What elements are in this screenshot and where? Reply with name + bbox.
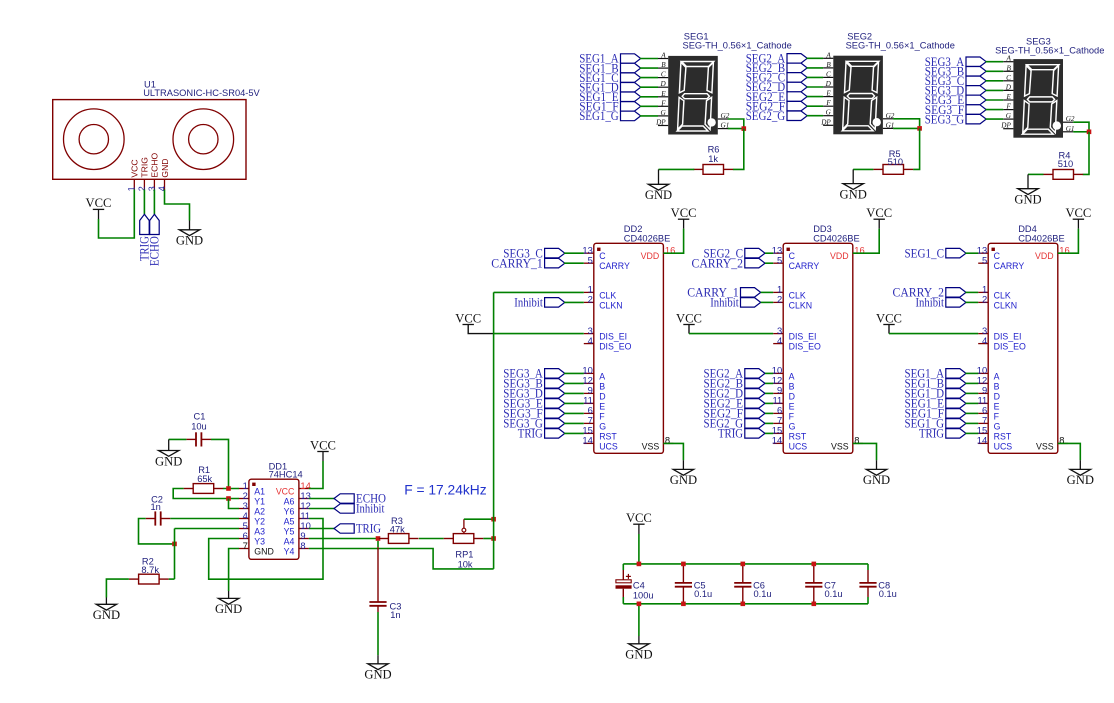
- net flag SEG1_D at DD4: [946, 389, 966, 399]
- svg-text:A: A: [789, 371, 795, 381]
- wire node F to C3: [377, 541, 379, 547]
- svg-text:ECHO: ECHO: [150, 152, 160, 177]
- svg-text:SEG3_G: SEG3_G: [925, 112, 965, 126]
- ground at rail: [629, 636, 649, 650]
- svg-text:Y5: Y5: [284, 527, 295, 537]
- svg-text:A4: A4: [284, 537, 295, 547]
- wire R5 to GND: [853, 168, 873, 170]
- wire SEG1 G2: [728, 119, 744, 129]
- net flag SEG1_A: [621, 54, 641, 63]
- svg-text:DIS_EO: DIS_EO: [599, 342, 631, 352]
- svg-text:VCC: VCC: [671, 206, 697, 220]
- net flag SEG3_F at DD2: [545, 409, 565, 419]
- power flag VCC at U1: [93, 209, 104, 219]
- net flag SEG2_A at DD3: [745, 369, 765, 379]
- wire SEG1_B to SEG1: [640, 67, 658, 69]
- svg-text:14: 14: [977, 435, 987, 446]
- svg-text:4: 4: [982, 335, 987, 346]
- net flag SEG1_C at DD4: [946, 248, 966, 258]
- svg-text:510: 510: [888, 157, 904, 167]
- svg-text:DD2: DD2: [624, 224, 643, 234]
- svg-text:DIS_EI: DIS_EI: [789, 332, 817, 342]
- svg-text:Y1: Y1: [254, 497, 265, 507]
- net flag SEG1_E at DD4: [946, 399, 966, 409]
- svg-text:VSS: VSS: [831, 441, 849, 451]
- net flag TRIG: [140, 214, 150, 234]
- svg-text:D: D: [1005, 83, 1012, 91]
- svg-text:C: C: [826, 70, 831, 78]
- svg-text:GND: GND: [670, 473, 697, 487]
- svg-text:A: A: [1006, 55, 1012, 63]
- svg-text:B: B: [826, 61, 831, 69]
- svg-text:E: E: [994, 401, 1000, 411]
- wire SEG1_D to DD4: [965, 392, 978, 394]
- svg-text:GND: GND: [155, 454, 182, 468]
- svg-text:1n: 1n: [390, 610, 400, 620]
- wire SEG2 G2: [893, 119, 920, 129]
- svg-text:5: 5: [588, 255, 593, 266]
- net flag SEG3_D: [966, 86, 986, 96]
- svg-text:CD4026BE: CD4026BE: [624, 234, 671, 244]
- svg-text:C: C: [994, 251, 1001, 261]
- wire SEG2_A to DD3: [765, 372, 773, 374]
- capacitor C1 10u: [186, 432, 211, 446]
- wire C1 to DD1 pin1: [211, 439, 229, 488]
- net flag SEG2_E: [787, 92, 807, 102]
- net flag SEG3_D at DD2: [545, 389, 565, 399]
- wire SEG3_A to DD2: [564, 372, 584, 374]
- wire R2 to node A3: [169, 578, 175, 580]
- svg-text:1: 1: [127, 186, 137, 191]
- capacitor C8 0.1u: [859, 570, 876, 597]
- wire SEG1_G to DD4: [965, 422, 978, 424]
- wire R1 to DD1 pin2: [173, 489, 239, 499]
- net flag CARRY_2 at DD4: [946, 288, 966, 298]
- wire rail right top corner: [867, 564, 869, 570]
- capacitor C4 100u polarized: [616, 570, 632, 597]
- svg-text:DD3: DD3: [813, 224, 832, 234]
- power flag VCC at DD2 VDD: [678, 219, 689, 228]
- ground at R4: [1018, 174, 1038, 194]
- svg-text:A3: A3: [254, 527, 265, 537]
- wire rail left top corner: [622, 564, 624, 570]
- svg-text:G: G: [599, 421, 606, 431]
- power flag VCC at DD4 VDD: [1073, 219, 1084, 228]
- wire DD1 pin12 to Inhibit: [309, 508, 334, 510]
- svg-text:F: F: [789, 411, 795, 421]
- junction C6 bottom: [741, 602, 746, 607]
- 7-segment display SEG2 SEG-TH_0.56x1_Cathode: [820, 51, 895, 134]
- ultrasonic sensor U1 ULTRASONIC-HC-SR04-5V: [53, 100, 246, 192]
- svg-text:VCC: VCC: [455, 311, 481, 325]
- wire SEG1_E to SEG1: [640, 96, 658, 98]
- wire TRIG to DD2: [564, 432, 584, 434]
- svg-text:VCC: VCC: [276, 487, 295, 497]
- svg-text:CLK: CLK: [599, 290, 616, 300]
- svg-text:G1: G1: [886, 121, 895, 129]
- wire DD2 VSS to GND: [663, 443, 683, 460]
- net flag SEG3_B at DD2: [545, 379, 565, 389]
- svg-text:RST: RST: [994, 431, 1012, 441]
- svg-text:8.7k: 8.7k: [141, 565, 159, 575]
- net flag SEG3_B: [966, 67, 986, 77]
- svg-text:TRIG: TRIG: [718, 427, 743, 441]
- wire U1 pin4 to GND: [165, 190, 190, 221]
- power flag VCC at rail: [633, 524, 644, 534]
- svg-text:TRIG: TRIG: [140, 157, 150, 178]
- svg-text:10u: 10u: [191, 421, 207, 431]
- wire SEG2_D to DD3: [765, 392, 773, 394]
- wire VCC rail top: [623, 563, 868, 565]
- wire DD1 pin8 to trunk: [309, 549, 494, 569]
- ground at U1: [179, 221, 199, 236]
- 7-segment display SEG3 SEG-TH_0.56x1_Cathode: [1000, 55, 1075, 138]
- wire U1 pin2 to TRIG flag: [143, 190, 145, 215]
- wire CARRY_1 to DD2: [564, 262, 584, 264]
- svg-text:D: D: [599, 391, 605, 401]
- svg-text:B: B: [994, 381, 1000, 391]
- svg-text:D: D: [789, 391, 795, 401]
- junction: [172, 542, 177, 547]
- svg-text:R6: R6: [708, 144, 720, 154]
- wire C2 to DD1 pin4: [170, 518, 239, 520]
- wire oscillator F to DD2 CLK: [494, 291, 584, 293]
- svg-text:C: C: [789, 251, 796, 261]
- svg-text:65k: 65k: [197, 474, 212, 484]
- svg-text:1n: 1n: [151, 502, 161, 512]
- svg-text:G: G: [826, 109, 832, 117]
- svg-text:A: A: [825, 51, 831, 59]
- svg-text:TRIG: TRIG: [919, 427, 944, 441]
- svg-text:GND: GND: [840, 187, 867, 201]
- wire SEG3_D to SEG3: [986, 89, 1004, 91]
- svg-text:2: 2: [777, 294, 782, 305]
- svg-text:G: G: [789, 421, 796, 431]
- net flag SEG2_B at DD3: [745, 379, 765, 389]
- svg-text:DP: DP: [820, 118, 831, 126]
- svg-text:CLKN: CLKN: [994, 300, 1017, 310]
- svg-text:VCC: VCC: [130, 159, 140, 177]
- ground at R5: [843, 169, 863, 189]
- svg-text:5: 5: [982, 255, 987, 266]
- wire SEG3 common to R4: [1083, 132, 1089, 175]
- wire rail right bottom corner: [867, 597, 869, 604]
- wire SEG1_C to DD4: [965, 252, 978, 254]
- net flag SEG3_A: [966, 57, 986, 67]
- svg-text:G: G: [1006, 112, 1012, 120]
- svg-text:B: B: [661, 61, 666, 69]
- net flag SEG3_C at DD2: [545, 248, 565, 258]
- ground at C3: [368, 655, 388, 670]
- junction: [637, 602, 642, 607]
- wire SEG3 G2: [1073, 122, 1089, 132]
- wire SEG3_F to DD2: [564, 412, 584, 414]
- svg-text:GND: GND: [215, 602, 242, 616]
- net flag SEG1_B at DD4: [946, 379, 966, 389]
- svg-text:F: F: [825, 99, 831, 107]
- net flag TRIG at DD2: [545, 429, 565, 439]
- svg-text:CLK: CLK: [789, 290, 806, 300]
- svg-text:F = 17.24kHz: F = 17.24kHz: [404, 482, 487, 497]
- net flag SEG3_G: [966, 114, 986, 124]
- wire C3 to GND: [377, 612, 379, 655]
- wire SEG2_B to DD3: [765, 382, 773, 384]
- net flag SEG2_E at DD3: [745, 399, 765, 409]
- net flag Inhibit at DD4: [946, 298, 966, 308]
- wire VCC to DD3 DIS_EI: [689, 333, 773, 335]
- junction: [917, 126, 922, 131]
- net flag SEG1_F: [621, 102, 641, 112]
- wire C1 to GND: [169, 438, 187, 440]
- wire CARRY_1 to DD3: [761, 291, 774, 293]
- svg-text:DIS_EI: DIS_EI: [994, 332, 1022, 342]
- svg-text:E: E: [825, 90, 831, 98]
- svg-text:G: G: [994, 421, 1001, 431]
- power flag VCC at DD3 VDD: [874, 219, 885, 228]
- wire VCC tap: [638, 534, 640, 564]
- wire VCC to DD2 DIS_EI: [494, 333, 584, 335]
- wire SEG3 G1: [1073, 131, 1089, 133]
- wire U1 pin3 to ECHO flag: [153, 190, 155, 215]
- wire SEG2_E to DD3: [765, 402, 773, 404]
- IC DD4 CD4026BE: [977, 243, 1070, 453]
- svg-text:2: 2: [982, 294, 987, 305]
- IC DD2 CD4026BE: [582, 243, 675, 453]
- svg-text:GND: GND: [254, 547, 274, 557]
- wire DD2 VDD to VCC: [663, 229, 683, 254]
- svg-text:A: A: [599, 371, 605, 381]
- net flag SEG3_G at DD2: [545, 419, 565, 429]
- net flag Inhibit at DD3: [741, 298, 761, 308]
- svg-text:A2: A2: [254, 507, 265, 517]
- net flag SEG2_G: [787, 111, 807, 121]
- wire SEG3_E to DD2: [564, 402, 584, 404]
- wire SEG3_A to SEG3: [986, 61, 1004, 63]
- wire RP1 wiper to trunk: [464, 518, 494, 520]
- svg-text:DIS_EO: DIS_EO: [789, 342, 821, 352]
- svg-text:A5: A5: [284, 517, 295, 527]
- wire SEG3_G to SEG3: [986, 118, 1004, 120]
- net flag SEG2_B: [787, 63, 807, 73]
- svg-text:5: 5: [777, 255, 782, 266]
- svg-text:TRIG: TRIG: [518, 427, 543, 441]
- svg-text:74HC14: 74HC14: [269, 470, 303, 480]
- svg-text:A: A: [994, 371, 1000, 381]
- wire DD1 Y3 to A5: [209, 519, 323, 580]
- svg-text:E: E: [660, 90, 666, 98]
- svg-text:CLKN: CLKN: [789, 300, 812, 310]
- wire SEG2_C to SEG2: [807, 76, 824, 78]
- wire U1 pin1 to VCC: [99, 190, 135, 239]
- resistor R1 65k: [184, 484, 224, 494]
- wire DD1 pin14 to VCC: [309, 461, 323, 489]
- wire DD4 VDD to VCC: [1058, 229, 1079, 254]
- wire SEG3_B to SEG3: [986, 70, 1004, 72]
- svg-text:SEG-TH_0.56×1_Cathode: SEG-TH_0.56×1_Cathode: [683, 41, 792, 51]
- wire SEG2 G1: [893, 127, 920, 129]
- wire DD3 VSS to GND: [853, 443, 877, 460]
- svg-text:10k: 10k: [458, 559, 473, 569]
- wire Inhibit to DD3: [761, 301, 774, 303]
- svg-text:F: F: [660, 99, 666, 107]
- net flag SEG3_E at DD2: [545, 399, 565, 409]
- junction: [376, 536, 381, 541]
- svg-text:VCC: VCC: [86, 196, 112, 210]
- svg-text:8: 8: [300, 540, 305, 551]
- wire TRIG to DD3: [765, 432, 773, 434]
- svg-text:3: 3: [147, 186, 157, 191]
- wire DD3 VDD to VCC: [853, 229, 879, 254]
- svg-text:G1: G1: [1066, 125, 1075, 133]
- junction: [742, 126, 747, 131]
- svg-text:CD4026BE: CD4026BE: [813, 234, 860, 244]
- junction: [226, 486, 231, 491]
- power flag VCC at DD4 DIS_EI: [883, 324, 894, 326]
- net flag CARRY_1 at DD2: [545, 258, 565, 268]
- net flag SEG3_A at DD2: [545, 369, 565, 379]
- svg-text:B: B: [599, 381, 605, 391]
- wire SEG1_C to SEG1: [640, 77, 658, 79]
- wire DD1 pin10 to TRIG: [309, 528, 334, 530]
- junction C6 top: [741, 562, 746, 567]
- net flag SEG1_G: [621, 111, 641, 121]
- svg-text:2: 2: [588, 294, 593, 305]
- net flag SEG2_C: [787, 73, 807, 83]
- svg-text:D: D: [659, 80, 666, 88]
- svg-text:4: 4: [777, 335, 782, 346]
- wire RP1 to trunk: [483, 538, 493, 540]
- svg-text:Inhibit: Inhibit: [356, 502, 385, 516]
- capacitor C3 1n: [369, 547, 386, 612]
- svg-text:VCC: VCC: [1065, 206, 1091, 220]
- power flag VCC at DD3 DIS_EI: [683, 324, 694, 326]
- svg-text:UCS: UCS: [789, 441, 808, 451]
- svg-text:G: G: [660, 109, 666, 117]
- svg-text:E: E: [789, 401, 795, 411]
- ground at R6: [648, 169, 668, 190]
- ground at DD3 VSS: [866, 460, 886, 475]
- svg-text:VCC: VCC: [876, 311, 902, 325]
- wire TRIG to DD4: [965, 432, 978, 434]
- wire R3 to RP1: [419, 538, 444, 540]
- wire SEG3_D to DD2: [564, 392, 584, 394]
- wire GND tap: [638, 604, 640, 636]
- wire SEG1_E to DD4: [965, 402, 978, 404]
- svg-text:Y3: Y3: [254, 537, 265, 547]
- svg-text:SEG-TH_0.56×1_Cathode: SEG-TH_0.56×1_Cathode: [995, 45, 1104, 55]
- resistor R5 510: [873, 165, 913, 175]
- wire SEG2 common to R5: [913, 128, 920, 169]
- capacitor C6 0.1u: [734, 564, 751, 604]
- wire Inhibit to DD4: [965, 301, 978, 303]
- svg-text:Inhibit: Inhibit: [916, 296, 945, 310]
- net flag SEG1_E: [621, 92, 641, 102]
- svg-text:UCS: UCS: [994, 441, 1013, 451]
- net flag SEG3_C: [966, 76, 986, 86]
- svg-text:VCC: VCC: [310, 438, 336, 452]
- svg-text:CARRY_2: CARRY_2: [692, 256, 744, 270]
- net flag ECHO: [334, 494, 354, 503]
- wire Inhibit to DD2: [564, 301, 584, 303]
- junction: [491, 536, 496, 541]
- junction C7 bottom: [812, 602, 817, 607]
- svg-text:DIS_EI: DIS_EI: [599, 332, 627, 342]
- wire VCC stub at DD4 DIS_EI: [888, 325, 890, 334]
- svg-text:B: B: [1007, 64, 1012, 72]
- wire SEG2_B to SEG2: [807, 67, 824, 69]
- svg-text:C4: C4: [633, 581, 645, 591]
- net flag SEG3_F: [966, 105, 986, 115]
- wire SEG2_G to DD3: [765, 422, 773, 424]
- svg-text:RST: RST: [599, 431, 617, 441]
- svg-text:47k: 47k: [390, 525, 405, 535]
- net flag ECHO: [150, 214, 160, 234]
- wire VCC stub at DD2 DIS_EI: [468, 325, 493, 334]
- IC DD1 74HC14: [239, 479, 311, 559]
- wire VCC stub at DD3 DIS_EI: [688, 325, 690, 334]
- capacitor C2 1n: [146, 511, 171, 525]
- svg-text:SEG1_C: SEG1_C: [905, 246, 945, 260]
- power flag VCC at DD2 DIS_EI: [463, 324, 474, 326]
- svg-text:F: F: [994, 411, 1000, 421]
- net flag TRIG at DD4: [946, 429, 966, 439]
- net flag SEG1_A at DD4: [946, 369, 966, 379]
- svg-text:SEG2_G: SEG2_G: [746, 109, 786, 123]
- wire SEG1_A to SEG1: [640, 58, 658, 60]
- svg-text:2: 2: [137, 186, 147, 191]
- wire DD4 VSS to GND: [1058, 443, 1081, 460]
- svg-text:VCC: VCC: [626, 511, 652, 525]
- svg-text:Inhibit: Inhibit: [514, 296, 543, 310]
- svg-text:GND: GND: [364, 668, 391, 682]
- svg-text:A: A: [660, 52, 666, 60]
- svg-text:GND: GND: [160, 158, 170, 177]
- power flag VCC at DD1: [317, 452, 328, 462]
- wire SEG2_D to SEG2: [807, 86, 824, 88]
- wire SEG3_B to DD2: [564, 382, 584, 384]
- net flag SEG1_C: [621, 73, 641, 83]
- svg-text:CD4026BE: CD4026BE: [1018, 234, 1065, 244]
- net flag Inhibit at DD2: [545, 298, 565, 308]
- svg-text:D: D: [994, 391, 1000, 401]
- net flag SEG2_D: [787, 82, 807, 92]
- svg-text:VDD: VDD: [830, 251, 849, 261]
- resistor R2 8.7k: [129, 574, 169, 584]
- svg-text:DIS_EO: DIS_EO: [994, 342, 1026, 352]
- wire SEG2_F to DD3: [765, 412, 773, 414]
- net flag SEG1_F at DD4: [946, 409, 966, 419]
- svg-text:GND: GND: [1014, 193, 1041, 207]
- wire SEG1_B to DD4: [965, 382, 978, 384]
- wire SEG1_G to SEG1: [640, 115, 658, 117]
- wire SEG1_D to SEG1: [640, 86, 658, 88]
- svg-text:B: B: [789, 381, 795, 391]
- svg-text:0.1u: 0.1u: [754, 589, 772, 599]
- svg-text:4: 4: [588, 335, 593, 346]
- wire DD1 pin5: [175, 528, 240, 530]
- svg-text:100u: 100u: [633, 590, 654, 600]
- svg-text:Y2: Y2: [254, 517, 265, 527]
- svg-text:CARRY: CARRY: [789, 261, 820, 271]
- wire R1 to DD1 pin1: [223, 488, 239, 490]
- svg-text:VDD: VDD: [641, 251, 660, 261]
- ground at R2: [96, 598, 116, 611]
- net flag Inhibit: [334, 504, 354, 513]
- svg-text:CARRY: CARRY: [994, 261, 1025, 271]
- svg-text:0.1u: 0.1u: [694, 589, 712, 599]
- svg-text:TRIG: TRIG: [356, 522, 381, 536]
- svg-text:GND: GND: [645, 188, 672, 202]
